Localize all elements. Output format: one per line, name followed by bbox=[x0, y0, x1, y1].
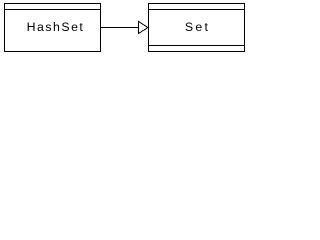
class box Set bbox=[148, 3, 245, 52]
HashSet name label bbox=[7, 20, 104, 34]
hollow triangle arrowhead pointing at Set bbox=[0, 0, 252, 57]
generalization wire from HashSet to arrowhead bbox=[101, 27, 138, 28]
Set bottom compartment separator bbox=[148, 45, 245, 46]
Set top compartment separator bbox=[148, 9, 245, 10]
class box HashSet bbox=[4, 3, 101, 52]
HashSet top compartment separator bbox=[4, 9, 101, 10]
Set name label bbox=[149, 20, 246, 34]
